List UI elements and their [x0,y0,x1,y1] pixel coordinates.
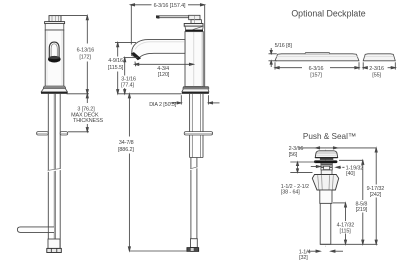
base rings (front) [44,86,65,87]
dimension 3-1/16 [77.4] [123,58,137,94]
dimension 4-9/16 [115.5] [115,43,136,94]
svg-text:[56]: [56] [289,152,298,158]
dimension 1-1/4 [32] tail dia [307,250,343,252]
drain body tube [320,190,332,203]
drain centerline [325,150,327,248]
faucet side view [131,15,213,251]
small deckplate profile [363,54,395,61]
body (front) [45,30,64,86]
dimension 6-13/16 [172] [61,16,88,94]
drain threads [321,163,332,170]
lever thick section [189,15,200,19]
svg-text:4-9/16: 4-9/16 [108,58,123,64]
shank (side) [189,94,191,158]
tailpiece [320,203,331,244]
dimension 6-3/16 [157.4] top [130,4,204,87]
upper ring (front) [45,24,64,30]
svg-text:Optional Deckplate: Optional Deckplate [291,8,365,18]
svg-text:6-13/16: 6-13/16 [77,47,95,53]
svg-text:[157]: [157] [310,72,322,78]
svg-text:[886.2]: [886.2] [118,147,134,153]
svg-text:[40]: [40] [346,171,355,177]
svg-text:2-3/16: 2-3/16 [369,66,384,72]
svg-text:Push & Seal™: Push & Seal™ [303,132,356,141]
dimension 9-17/32 [242] [375,148,377,244]
dimension 6-3/16 [157] [275,62,359,69]
dimension 5/16 [8] [269,48,277,67]
drain cap neck dark band [320,158,333,160]
dimension 3 [76.2] max deck [68,94,89,132]
bottom extension line [320,243,377,245]
dimension 1-19/32 [40] thread dia [311,165,345,168]
base flare (front) [41,88,67,92]
drain dome cap [315,151,338,158]
coupling (front bottom) [48,239,60,248]
svg-text:[77.4]: [77.4] [121,82,134,88]
dimension 34-7/8 [886.2] [128,94,190,251]
bonnet flange [184,24,203,27]
base dark band (front) [41,92,68,94]
dimension 4-3/4 [120] [135,62,194,67]
faucet front view [17,16,67,253]
svg-text:DIA 2 [50.5]: DIA 2 [50.5] [149,102,177,108]
supply tube (side) [190,158,192,239]
cap (front) [49,16,61,22]
dimension DIA 2 [50.5] [170,95,219,104]
hex nut (front bottom) [47,248,62,252]
handle hub [191,20,201,24]
body (side) [185,32,203,87]
supply hose (horizontal) [17,227,54,233]
lever bar (side) [156,16,188,18]
dimension 1-1/2 - 2-1/2 [38-64] deck range [290,162,316,172]
svg-text:6-3/16 [157.4]: 6-3/16 [157.4] [154,3,186,9]
dimension 2-3/16 [56] cap width [298,147,376,149]
tube break mark [190,167,197,169]
cap flange (front) [45,22,65,24]
svg-text:[115.5]: [115.5] [108,65,124,71]
drain upper neck [321,170,332,175]
mounting washer plate (side) [184,132,212,135]
svg-text:[120]: [120] [158,72,170,78]
drain gasket cone [312,175,338,191]
deck surface line (left) [67,93,89,95]
mounting nut tabs [37,132,49,135]
spout [132,40,185,58]
dimension 2-3/16 [55] [363,62,395,69]
svg-text:[219]: [219] [356,207,368,213]
dark collar band [185,30,203,32]
svg-text:[172]: [172] [79,54,91,60]
svg-text:5/16 [8]: 5/16 [8] [275,43,293,49]
svg-text:[32]: [32] [299,255,308,261]
handle loop (front) [49,42,59,57]
shank (front) [47,94,49,249]
svg-text:THICKNESS: THICKNESS [73,118,103,124]
drain flange (dark) [314,160,337,163]
shank break mark [48,169,61,171]
base flare (side) [182,89,209,92]
base dark band (side) [182,92,209,94]
dimension 4-17/32 [115] [333,203,347,244]
svg-text:[38 - 64]: [38 - 64] [281,190,300,196]
svg-text:6-3/16: 6-3/16 [309,66,324,72]
handle grip (front, dark) [48,56,61,63]
spout tip aerator (dark) [131,52,141,60]
deck surface line (middle) [118,93,182,95]
lever end tip [156,16,159,19]
supply nut (side bottom, dark) [187,248,199,252]
dimension 8-5/8 [219] [339,160,364,244]
svg-text:34-7/8: 34-7/8 [119,140,134,146]
tube coupling (side bottom) [191,239,198,248]
svg-text:[55]: [55] [372,72,381,78]
svg-text:[242]: [242] [370,192,382,198]
svg-text:[115]: [115] [340,228,352,234]
base rings (side) [184,87,209,88]
large deckplate profile [275,53,359,61]
deckplate raised rib [305,53,330,54]
bonnet taper [185,26,203,30]
